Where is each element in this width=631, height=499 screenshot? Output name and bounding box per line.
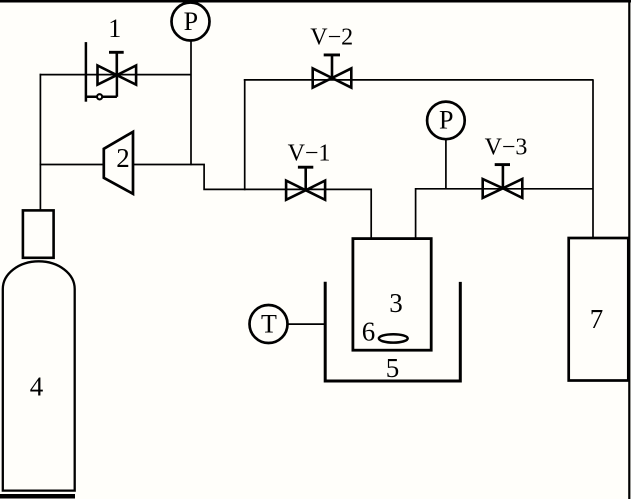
cylinder 4 base <box>0 494 75 499</box>
wire: gauge P2 stem <box>445 139 447 190</box>
svg-text:4: 4 <box>30 372 44 402</box>
cylinder 4 neck <box>23 210 54 257</box>
gauge P1 <box>172 3 210 41</box>
stir bar 6 <box>379 334 408 342</box>
cylinder 4 body <box>3 261 75 490</box>
svg-text:5: 5 <box>386 353 400 383</box>
svg-text:6: 6 <box>362 317 376 347</box>
svg-text:V−1: V−1 <box>288 140 331 166</box>
valve V-2 <box>313 55 352 88</box>
svg-text:7: 7 <box>590 304 604 334</box>
wire: vessel right pipe riser <box>416 189 593 239</box>
wire: left vertical cylinder feed <box>39 74 41 211</box>
vessel 3 (reactor) <box>353 239 431 351</box>
wire: V-2 horizontal run <box>244 79 593 81</box>
adsorber 7 <box>569 238 629 381</box>
wire: gauge P1 stem <box>190 40 192 165</box>
valve V-3 <box>483 165 523 198</box>
bath 5 (open container) <box>325 282 460 381</box>
valve V-1 <box>286 167 325 200</box>
svg-text:T: T <box>261 309 277 338</box>
wire: regulator inlet/outlet horizontal run <box>40 74 191 76</box>
wire: right drop into adsorber 7 <box>592 79 594 238</box>
svg-text:P: P <box>439 106 453 135</box>
svg-text:P: P <box>184 7 198 36</box>
wire: branch to compressor 2 inlet <box>40 164 104 166</box>
right frame line <box>628 0 630 499</box>
svg-text:V−2: V−2 <box>310 25 353 51</box>
svg-text:V−3: V−3 <box>485 135 528 161</box>
gauge P2 <box>427 102 465 140</box>
wire: T gauge link to bath <box>288 323 327 325</box>
svg-text:1: 1 <box>108 14 121 43</box>
svg-text:3: 3 <box>389 288 403 318</box>
wire: compressor outlet with step down, through V-1 to vessel drop <box>133 165 371 240</box>
gauge T <box>250 305 288 343</box>
compressor 2 <box>104 132 133 194</box>
svg-text:2: 2 <box>116 143 130 173</box>
top frame line <box>0 0 631 3</box>
wire: V-2 branch riser <box>244 79 246 190</box>
valve 1 (regulator) <box>86 42 136 102</box>
